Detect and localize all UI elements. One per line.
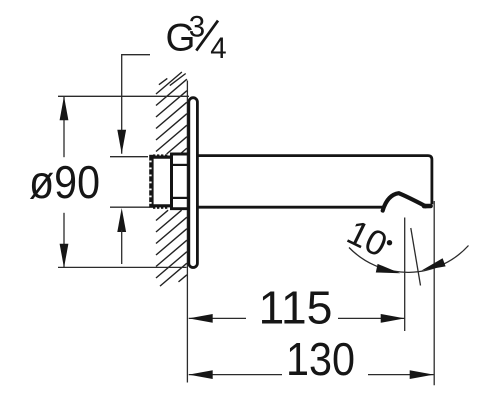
hex nut body — [170, 153, 188, 210]
thread bottom edge — [150, 204, 172, 207]
extension line ø90 top — [58, 95, 189, 97]
angle arc — [349, 246, 469, 273]
extension line ø90 bottom — [58, 266, 187, 268]
svg-text:4: 4 — [210, 32, 226, 65]
svg-text:3: 3 — [189, 10, 205, 43]
spout tube top edge with rounded right corner and right edge — [199, 156, 432, 205]
arrow G3/4 thread top (down) — [117, 130, 126, 154]
thread top edge — [150, 156, 172, 159]
spout tube bottom edge — [199, 206, 386, 209]
arrow thread bottom (up) — [117, 208, 126, 232]
thread crest ticks — [153, 154, 167, 208]
extension line thread top — [110, 156, 148, 158]
wall hatch — [156, 72, 187, 286]
arc arrow left — [376, 264, 400, 273]
dimension 130 — [189, 374, 282, 376]
thread left serrated cap — [149, 155, 153, 208]
svg-text:ø90: ø90 — [29, 156, 100, 208]
wall right edge / left extension line for 115 and 130 — [186, 81, 188, 383]
svg-text:115: 115 — [259, 281, 333, 333]
dimension 115 — [189, 317, 246, 319]
hex chamfer lines — [173, 164, 188, 166]
tail below bottom arrow — [121, 230, 123, 264]
degree dot — [387, 240, 392, 245]
arrow ø90 top — [60, 96, 69, 120]
text 10 deg — [341, 213, 393, 265]
spout outlet beak — [383, 193, 426, 210]
arrow ø90 bottom — [60, 244, 69, 268]
right extension line x=434 (for 130) — [433, 201, 435, 385]
10 degree slant line — [411, 228, 421, 286]
dimension line ø90 (broken for text) — [63, 96, 65, 157]
thread cap notches — [149, 161, 151, 204]
flange (escutcheon side view) — [189, 98, 198, 268]
arc arrow right — [422, 258, 446, 270]
extension line thread bottom — [110, 206, 150, 208]
vertical reference line x=405 (for 115 / angle) — [404, 218, 406, 332]
svg-text:130: 130 — [286, 333, 355, 385]
leader line G3/4 — [122, 55, 150, 154]
